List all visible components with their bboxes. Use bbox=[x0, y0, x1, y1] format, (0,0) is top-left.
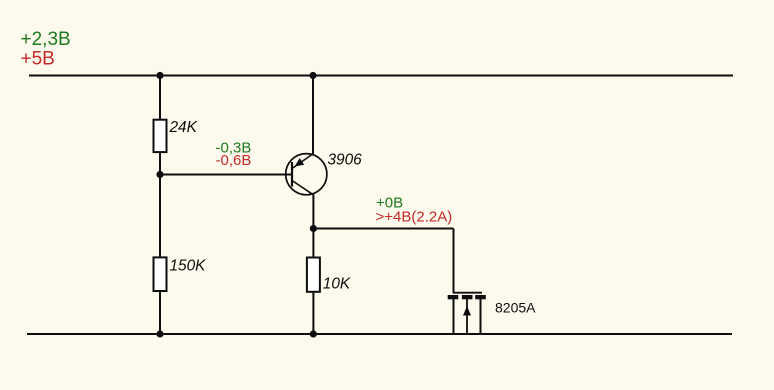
wire top rail bbox=[29, 75, 733, 77]
transistor Q1 circle bbox=[286, 154, 327, 195]
svg-text:>+4В(2.2А): >+4В(2.2А) bbox=[376, 208, 453, 225]
wire left branch lower bbox=[159, 292, 161, 335]
resistor 24K body bbox=[154, 120, 167, 152]
wire middle branch lower bbox=[312, 292, 314, 334]
transistor Q1 emitter arrow (PNP) bbox=[295, 158, 305, 166]
resistor 10K body bbox=[307, 258, 320, 292]
transistor Q1 emitter diagonal bbox=[293, 154, 314, 169]
mosfet U1 body pin lower bbox=[466, 315, 468, 334]
node junction bottom-left bbox=[156, 330, 163, 337]
svg-text:10K: 10K bbox=[323, 275, 351, 292]
mosfet U1 channel segment right bbox=[475, 295, 486, 299]
wire left branch middle bbox=[159, 153, 161, 257]
wire collector down bbox=[312, 195, 314, 258]
mosfet U1 drain pin bbox=[480, 299, 482, 334]
svg-text:-0,6В: -0,6В bbox=[216, 152, 252, 169]
node base junction bbox=[156, 171, 163, 178]
svg-text:3906: 3906 bbox=[328, 152, 363, 169]
wire output horizontal bbox=[313, 228, 453, 230]
svg-text:150K: 150K bbox=[170, 258, 207, 275]
wire bottom rail bbox=[27, 333, 732, 335]
node junction bottom-mid bbox=[310, 330, 317, 337]
node junction top-left bbox=[156, 72, 163, 79]
mosfet U1 gate bar bbox=[453, 292, 482, 294]
mosfet U1 channel segment left bbox=[448, 295, 459, 299]
node junction top-mid bbox=[309, 72, 316, 79]
node collector junction bbox=[310, 225, 317, 232]
wire left branch upper bbox=[159, 76, 161, 121]
svg-text:+2,3В: +2,3В bbox=[21, 29, 71, 50]
wire base bbox=[160, 174, 292, 176]
wire gate vertical bbox=[453, 229, 455, 293]
mosfet U1 channel segment middle bbox=[462, 295, 473, 299]
transistor Q1 collector diagonal bbox=[293, 181, 314, 195]
wire middle branch upper (emitter feed) bbox=[312, 76, 314, 155]
svg-text:24K: 24K bbox=[169, 119, 198, 136]
svg-text:8205A: 8205A bbox=[495, 300, 536, 316]
resistor 150K body bbox=[154, 257, 167, 291]
mosfet U1 body arrow bbox=[463, 306, 471, 316]
svg-text:+5В: +5В bbox=[21, 49, 55, 70]
mosfet U1 body pin upper bbox=[466, 299, 468, 308]
mosfet U1 source pin bbox=[453, 299, 455, 334]
transistor Q1 base bar bbox=[291, 162, 293, 187]
